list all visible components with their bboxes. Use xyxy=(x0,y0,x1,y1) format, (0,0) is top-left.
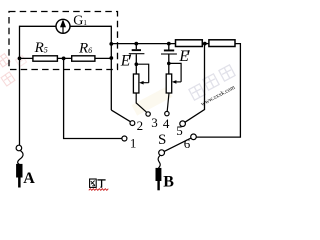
battery E' 1 xyxy=(129,44,145,74)
wire: from R5-R6 junction down and right to contact 1 xyxy=(64,58,122,138)
rheostat 2 wiper arrow xyxy=(174,81,181,83)
contact 6 xyxy=(191,134,197,140)
node: junction top bus / right vertical xyxy=(109,42,113,46)
svg-text:A: A xyxy=(23,170,35,187)
wire: between top-right resistors xyxy=(202,43,209,45)
wire: left vertical from loop corner down to probe A lead xyxy=(19,26,21,146)
resistor R1 (top right, left box) xyxy=(176,40,203,47)
probe A flexible lead squiggle xyxy=(18,151,23,165)
node: junction resistor row / right vertical xyxy=(109,56,113,60)
node: junction top bus / battery E' 2 xyxy=(167,42,171,46)
wire: right vertical of meter loop down toward contact 2 xyxy=(110,26,112,110)
figure caption 丁 (drawn) xyxy=(97,180,105,188)
probe A lead circle xyxy=(16,145,22,151)
svg-text:4: 4 xyxy=(163,116,170,131)
svg-text:G1: G1 xyxy=(73,14,87,29)
red wavy underline xyxy=(89,189,109,191)
wire: right edge down to contact 6 xyxy=(196,44,240,138)
rheostat 1 xyxy=(133,74,139,93)
rheostat 1 wiper arrow xyxy=(142,82,149,84)
svg-text:B: B xyxy=(163,174,174,191)
galvanometer G1 xyxy=(56,19,70,33)
wire: galvanometer loop top, right segment xyxy=(70,25,111,27)
resistor row wires xyxy=(20,57,112,59)
svg-text:1: 1 xyxy=(130,135,137,150)
svg-text:E: E xyxy=(178,48,189,65)
svg-text:R5: R5 xyxy=(34,40,48,56)
probe B tip xyxy=(157,181,159,190)
resistor R5 xyxy=(33,56,58,61)
node below battery 2 xyxy=(167,62,171,66)
wire: wiper link 2 xyxy=(169,63,181,82)
contact 2 xyxy=(130,121,135,126)
node: junction top bus / battery E' 1 xyxy=(134,42,138,46)
wire: galvanometer loop top, left segment xyxy=(20,25,57,27)
figure caption 图 (drawn) xyxy=(90,179,97,187)
node: junction between top-right resistors / branch to contact 5 xyxy=(203,42,207,46)
probe B flexible lead squiggle xyxy=(158,155,160,168)
wire: wiper link 1 xyxy=(136,64,148,83)
watermark pink cluster left xyxy=(0,54,27,86)
contact 4 xyxy=(165,111,169,115)
svg-text:S: S xyxy=(158,132,166,148)
dashed meter box xyxy=(9,12,118,70)
wire: top bus xyxy=(111,43,175,45)
contact 1 xyxy=(122,136,127,141)
battery E' 2 xyxy=(161,44,177,74)
probe A tip xyxy=(18,178,21,188)
svg-text:E: E xyxy=(120,52,131,69)
resistor R2 (top right, right box) xyxy=(209,40,235,47)
watermark yellow band xyxy=(132,86,173,115)
wire: rheostat 1 to contact 3 xyxy=(136,93,146,112)
switch S pivot terminal xyxy=(159,150,165,156)
label E' 2 prime mark xyxy=(188,50,189,55)
svg-text:R6: R6 xyxy=(78,41,92,57)
svg-text:www.zxxk.com: www.zxxk.com xyxy=(200,85,236,108)
rheostat 2 xyxy=(166,74,172,93)
wire: rheostat 2 to contact 4 xyxy=(167,93,169,111)
probe B body xyxy=(156,168,162,181)
label E' 1 prime mark xyxy=(129,55,130,60)
svg-text:5: 5 xyxy=(176,123,183,138)
contact 3 xyxy=(146,112,150,116)
contact 5 xyxy=(180,121,186,127)
node below battery 1 xyxy=(135,62,139,66)
resistor R6 xyxy=(72,56,95,61)
watermark gray 学科网 right xyxy=(189,65,235,100)
node: junction between R5 and R6 xyxy=(62,57,66,61)
svg-text:3: 3 xyxy=(151,115,158,130)
wire: diagonal from right vertical to contact 2 xyxy=(111,110,130,122)
probe A body xyxy=(16,164,22,178)
wire: mid vertical down and diagonal to contact 5 xyxy=(185,44,205,123)
svg-text:2: 2 xyxy=(137,118,144,133)
node: junction left vertical / resistor row xyxy=(18,57,22,61)
switch S arm (pivot to contact 6) xyxy=(164,138,191,151)
